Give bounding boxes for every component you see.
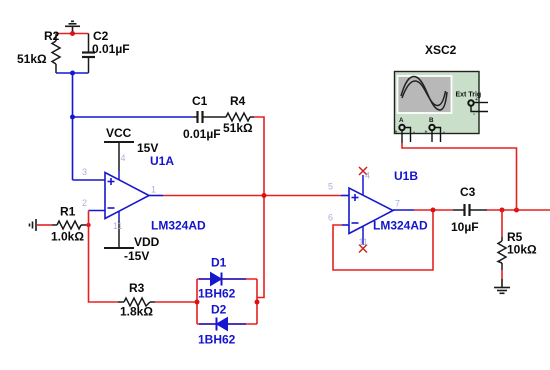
wire (blue) node A to C1	[73, 116, 194, 118]
svg-text:R4: R4	[230, 94, 246, 108]
svg-text:C2: C2	[93, 29, 109, 43]
wire (red) R3 to diode box	[155, 301, 197, 303]
wire (red) ground to R1	[37, 224, 52, 226]
svg-text:51kΩ: 51kΩ	[223, 121, 253, 135]
junction dot U1B output	[431, 208, 436, 213]
svg-text:VDD: VDD	[134, 235, 160, 249]
junction dot inverting node	[86, 223, 90, 227]
junction dot at ground/top rail	[70, 31, 75, 36]
wire bottom rail (blue) R2 bottom to C2 bottom	[56, 72, 89, 74]
junction dot scope tap	[514, 208, 519, 213]
svg-text:4: 4	[365, 171, 370, 181]
diode D2	[217, 318, 228, 331]
svg-text:10µF: 10µF	[451, 220, 479, 234]
XSC2 terminal B	[425, 125, 446, 142]
instrument XSC2 body	[395, 72, 480, 134]
pin 7 output stub (blue) U1B	[393, 209, 414, 211]
wire (red) R1 to inverting node	[86, 224, 89, 226]
svg-text:LM324AD: LM324AD	[373, 219, 428, 233]
pin 1 output stub (blue) U1A	[149, 195, 163, 197]
svg-text:B: B	[429, 117, 434, 124]
resistor R5	[498, 210, 506, 270]
svg-text:2: 2	[82, 198, 87, 208]
XSC2 sine trace 2	[402, 81, 446, 106]
svg-text:D2: D2	[211, 303, 227, 317]
wire diode box right rail (red)	[256, 279, 258, 324]
svg-text:U1B: U1B	[394, 169, 418, 183]
svg-text:XSC2: XSC2	[425, 43, 457, 57]
svg-text:0.01µF: 0.01µF	[92, 42, 130, 56]
svg-text:R2: R2	[44, 29, 60, 43]
wire diode box left rail (red)	[196, 279, 198, 324]
svg-text:A: A	[399, 117, 404, 124]
svg-text:C3: C3	[460, 185, 476, 199]
XSC2 sine trace 1	[401, 77, 447, 111]
resistor R4	[226, 113, 254, 121]
svg-text:-: -	[473, 112, 475, 118]
svg-text:C1: C1	[192, 94, 208, 108]
svg-text:-15V: -15V	[124, 249, 149, 263]
junction dot diode box left	[195, 300, 200, 305]
svg-text:+: +	[425, 130, 428, 136]
svg-text:U1A: U1A	[150, 154, 174, 168]
op-amp U1A triangle	[105, 173, 149, 219]
svg-text:1.0kΩ: 1.0kΩ	[51, 230, 84, 244]
svg-text:1BH62: 1BH62	[198, 287, 236, 301]
wire (red) inverting node down to feedback	[89, 225, 119, 302]
wire (red) C3 to right edge	[487, 209, 550, 211]
resistor R1	[52, 221, 86, 229]
svg-text:R1: R1	[60, 205, 76, 219]
svg-text:VCC: VCC	[106, 126, 132, 140]
power VCC symbol	[104, 141, 134, 143]
svg-text:11: 11	[359, 237, 368, 247]
svg-text:1BH62: 1BH62	[198, 333, 236, 347]
diode D1	[211, 273, 222, 286]
wire diode top branch	[197, 278, 257, 280]
svg-text:10kΩ: 10kΩ	[507, 243, 537, 257]
ground (top, above R2C2)	[65, 21, 80, 33]
pin 6 wire (- input U1B)	[342, 224, 349, 226]
pin 3 wire (+ input U1A)	[73, 179, 106, 181]
svg-text:-: -	[443, 130, 445, 136]
svg-text:11: 11	[113, 221, 122, 231]
op-amp U1B triangle	[349, 188, 393, 234]
capacitor C1	[193, 111, 209, 123]
svg-text:1.8kΩ: 1.8kΩ	[120, 305, 153, 319]
pin 4 wire (VCC pin U1A)	[118, 142, 120, 180]
XSC2 terminal A	[395, 125, 416, 143]
capacitor C2	[82, 34, 95, 74]
pin 11 stub U1B with no-connect X	[359, 226, 367, 253]
wire (red) U1B output to C3	[414, 209, 453, 211]
svg-text:15V: 15V	[137, 141, 158, 155]
svg-text:4: 4	[121, 153, 126, 163]
pin 5 stub (blue)	[341, 195, 349, 197]
ground (below R5)	[494, 279, 510, 293]
wire diode bottom branch	[197, 323, 257, 325]
pin 2 wire (- input U1A)	[89, 210, 106, 212]
wire (red) U1A output to U1B + input	[163, 195, 341, 197]
svg-text:7: 7	[395, 199, 400, 209]
svg-text:LM324AD: LM324AD	[151, 219, 206, 233]
wire (red) R4 to output node vertical	[254, 117, 264, 298]
XSC2 screen	[398, 76, 452, 113]
junction dot node A / C1 branch	[70, 115, 75, 120]
svg-text:R3: R3	[129, 281, 145, 295]
svg-text:+: +	[395, 130, 398, 136]
wire (red) U1B feedback loop pin6 to output	[333, 210, 433, 270]
svg-text:6: 6	[328, 213, 333, 223]
junction dot R5 tap	[500, 208, 505, 213]
svg-text:3: 3	[82, 167, 87, 177]
svg-text:+: +	[475, 97, 478, 103]
power VDD symbol	[104, 247, 134, 249]
XSC2 ext trig terminal	[468, 97, 488, 118]
wire (red) scope A to output node	[402, 143, 517, 210]
svg-text:0.01µF: 0.01µF	[183, 127, 221, 141]
resistor R2	[52, 34, 60, 74]
svg-text:1: 1	[151, 185, 156, 195]
junction dot output node	[262, 193, 267, 198]
wire C1 to R4	[209, 116, 226, 118]
wire (red) inverting node up to pin2	[88, 211, 90, 226]
resistor R3	[118, 298, 155, 306]
capacitor C3	[453, 204, 487, 216]
svg-text:D1: D1	[211, 256, 227, 270]
ground (left of R1, rotated)	[30, 219, 37, 231]
svg-text:51kΩ: 51kΩ	[17, 52, 47, 66]
svg-text:-: -	[413, 130, 415, 136]
wire (red) R5 to ground	[501, 270, 503, 279]
pin 4 stub U1B with no-connect X	[359, 167, 367, 196]
junction dot diode box right	[255, 300, 260, 305]
junction dot bottom rail	[70, 71, 75, 76]
wire node A vertical (blue) down to U1A + input	[72, 73, 74, 180]
svg-text:5: 5	[328, 182, 333, 192]
pin 11 wire (VDD pin U1A)	[118, 211, 120, 248]
wire top rail (red) R2 top to C2 top	[56, 33, 89, 35]
